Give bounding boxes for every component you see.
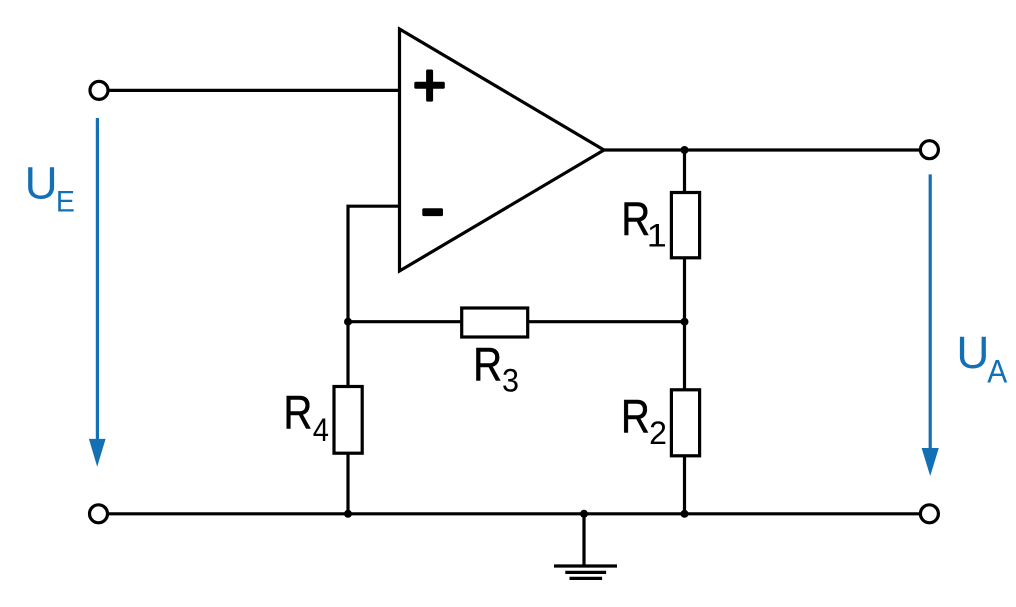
wire R2 bottom — [683, 456, 686, 514]
node ground-rail right terminal — [920, 505, 938, 523]
arrow U_E — [89, 118, 106, 467]
svg-text:A: A — [987, 354, 1008, 390]
wire output — [604, 148, 921, 151]
wire R4 top — [346, 322, 349, 388]
wire R1 to R2 — [683, 258, 686, 391]
wire input (+) — [106, 89, 400, 92]
node feedback left junction — [344, 318, 352, 326]
node output junction — [681, 146, 689, 154]
op-amp - input marker — [422, 208, 443, 216]
label U_E — [25, 158, 75, 219]
label R3 — [473, 338, 519, 399]
svg-text:R: R — [621, 390, 650, 443]
resistor R3 — [462, 308, 528, 337]
svg-text:E: E — [56, 185, 75, 218]
resistor R1 — [671, 193, 699, 258]
svg-text:U: U — [956, 327, 989, 378]
resistor R4 — [334, 387, 362, 454]
node feedback right junction — [681, 318, 689, 326]
svg-text:R: R — [473, 338, 502, 391]
wire R3 left — [348, 320, 463, 323]
svg-text:4: 4 — [313, 412, 329, 448]
wire R3 right — [528, 320, 685, 323]
node ground junction — [580, 510, 588, 518]
wire ground rail — [106, 512, 921, 515]
wire R1 top — [683, 150, 686, 194]
resistor R2 — [671, 390, 699, 456]
node output terminal — [920, 141, 938, 159]
op-amp U1 — [400, 29, 605, 271]
svg-text:1: 1 — [647, 218, 667, 254]
label R2 — [621, 390, 667, 452]
label R1 — [621, 192, 667, 254]
op-amp + input marker — [414, 70, 445, 102]
node ground-rail left terminal — [90, 505, 108, 523]
node R4 rail junction — [344, 510, 352, 518]
svg-text:2: 2 — [649, 415, 667, 451]
label R4 — [283, 386, 329, 448]
label U_A — [956, 327, 1008, 389]
arrow U_A — [922, 174, 939, 476]
ground — [554, 514, 617, 579]
svg-text:R: R — [283, 386, 312, 439]
svg-text:U: U — [25, 158, 58, 209]
node input terminal — [90, 81, 108, 99]
wire inverting input — [348, 206, 400, 322]
wire R4 bottom — [346, 453, 349, 514]
svg-text:3: 3 — [502, 362, 519, 398]
node R2 rail junction — [681, 510, 689, 518]
